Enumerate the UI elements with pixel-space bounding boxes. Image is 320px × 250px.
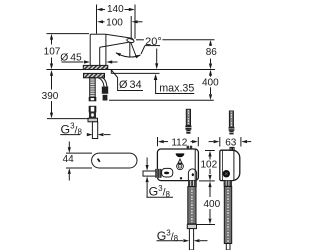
svg-text:max.35: max.35 xyxy=(159,83,194,95)
svg-text:63: 63 xyxy=(225,138,237,149)
svg-text:112: 112 xyxy=(171,138,187,149)
svg-text:86: 86 xyxy=(206,47,218,58)
svg-text:Ø 45: Ø 45 xyxy=(60,52,82,63)
svg-text:107: 107 xyxy=(44,47,61,58)
svg-text:G3/8: G3/8 xyxy=(149,184,171,199)
svg-text:44: 44 xyxy=(63,154,75,165)
svg-text:400: 400 xyxy=(203,199,220,210)
svg-text:100: 100 xyxy=(106,18,123,29)
svg-text:Ø 34: Ø 34 xyxy=(119,79,142,91)
svg-text:390: 390 xyxy=(42,91,59,102)
svg-text:400: 400 xyxy=(202,77,219,88)
svg-text:102: 102 xyxy=(200,160,217,171)
svg-text:140: 140 xyxy=(107,4,124,15)
svg-text:20°: 20° xyxy=(145,36,162,48)
